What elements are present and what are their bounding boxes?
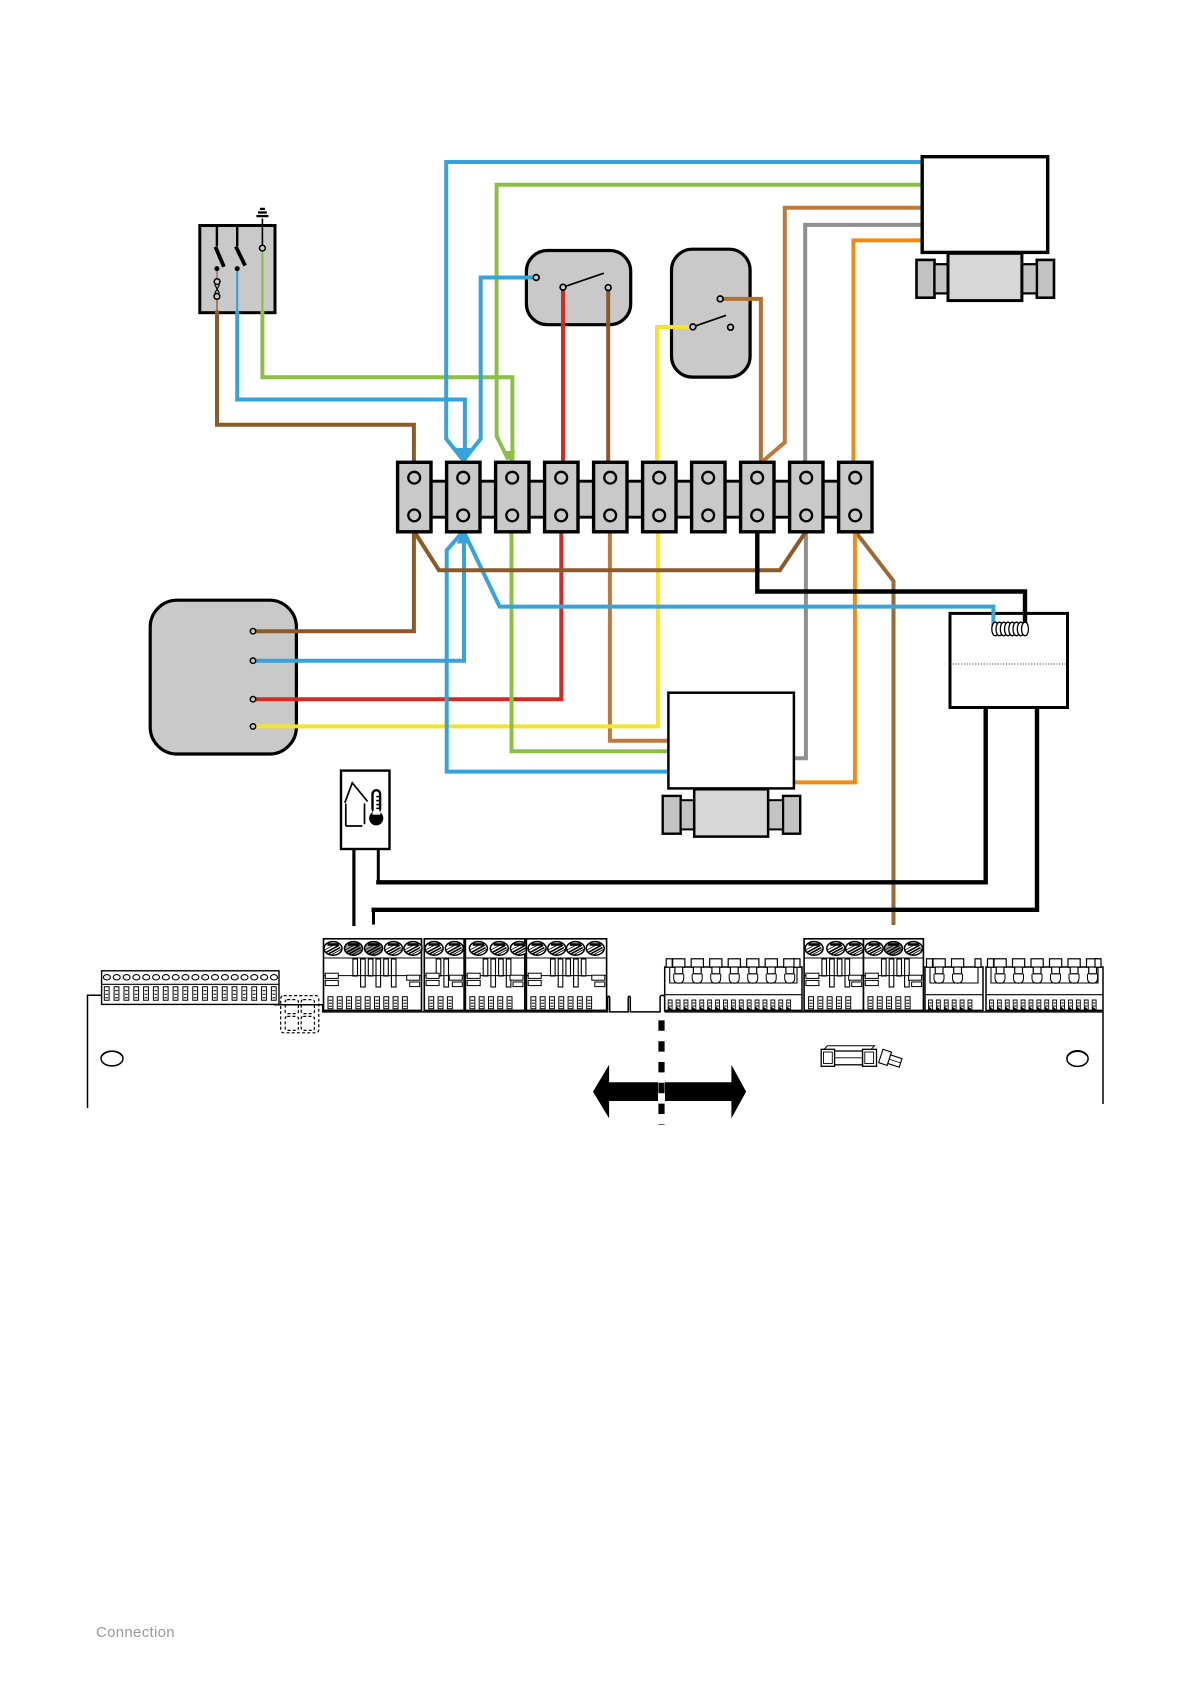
wire brown programmer to T1 [255,531,414,631]
wire black cylinder to board [372,707,1038,910]
board connector module F3 [986,959,1103,1011]
wire black sensor left lead to board [352,849,355,926]
motorised valve MV2 [663,693,801,837]
wire brown cyl-stat to T8 [723,299,761,462]
board connector module F1 [665,959,802,1011]
board terminal module M1 [324,939,423,1011]
board separation dashed line [658,1020,665,1125]
junction arrowhead blue at T2 bottom [457,531,471,544]
wire brown switch to T1 [217,311,414,463]
terminal block T5 [594,462,627,532]
board terminal module M5 [804,939,864,1011]
board connector J1 (18-pin) [102,971,279,1005]
controller board outline left [88,995,665,1108]
wire blue room-stat to T2 [464,278,534,461]
room thermostat contacts [533,275,611,291]
terminal block T1 [398,462,431,532]
wire red T4 to programmer [255,531,561,699]
wire blue T2 to cylinder coil [464,531,994,630]
wire blue valve MV1 to T2 [446,162,922,461]
board terminal module M3 [465,939,528,1011]
fuse F1 on board [821,1046,876,1067]
terminal block T6 [643,462,676,532]
terminal block T4 [545,462,578,532]
wire black T8 to immersion coil [757,531,1025,635]
wire brown link T1 to T9 [414,531,806,570]
terminal block T9 [790,462,823,532]
junction arrowhead green at T3 [505,451,516,462]
controller board outline right [665,1012,1103,1104]
cylinder thermostat CT body [672,249,751,377]
terminal block T10 [839,462,872,532]
wire orange valve MV1 to T10 [853,240,922,462]
dashed option module (display) [281,996,319,1033]
board terminal module M6 [864,939,924,1011]
wire blue switch to T2 [237,311,465,461]
board terminal module M4 [526,939,606,1011]
motorised valve MV1 [917,157,1055,301]
isolator switch contacts [214,245,265,299]
separation arrow [593,1065,746,1119]
programmer / timer unit body [150,600,296,754]
wire black board drop lead [372,909,375,925]
wire brown switch thin lead 2 [216,299,218,311]
small board component [879,1049,903,1069]
immersion heater coil [992,622,1029,636]
mounting hole right [1067,1051,1088,1067]
hot water cylinder body [950,613,1068,707]
terminal block T7 [692,462,725,532]
isolator switch SW1 body [200,219,275,313]
junction arrowhead blue at T2 top [455,448,473,462]
wire black sensor right lead [377,849,380,884]
wire brown-light valve MV1 to T8 [763,208,923,462]
wire yellow T6 to programmer [255,531,658,726]
wire blue T2 to valve MV2 [447,531,669,772]
ground symbol above isolator [256,209,268,216]
wire brown room-stat to T5 [606,290,610,462]
wire green valve MV1 to T3 [497,185,922,460]
wire green switch earth to T3 [262,311,512,462]
outdoor temperature sensor [341,771,390,849]
mounting hole left [101,1051,123,1066]
caption text [96,1624,175,1641]
terminal block T8 [741,462,774,532]
cylinder thermostat contacts [690,296,733,330]
wire green T3 to valve MV2 [512,531,669,751]
wire brown-light T5 to valve MV2 [610,531,669,741]
board connector module F2 [925,959,983,1011]
wire gray T9 to valve MV2 [792,531,806,758]
wire red room-stat to T4 [561,290,565,463]
room thermostat RT body [526,251,630,325]
terminal block T3 [496,462,529,532]
terminal strip bar [400,481,868,517]
wire yellow cyl-stat to T6 [657,327,691,462]
terminal block T2 [447,462,480,532]
wire gray valve MV1 to T9 [805,225,922,462]
board terminal module M2 [424,939,464,1011]
wire black cylinder to outdoor sensor [376,707,986,882]
wire brown switch thin lead [216,269,218,279]
wire blue switch thin lead [236,270,238,311]
wire orange T10 to valve MV2 [792,531,855,782]
wire green switch thin lead [261,251,263,311]
programmer terminals [250,629,255,730]
wire brown T10 to board terminal [855,531,894,925]
wire blue T2 to programmer [255,531,464,661]
